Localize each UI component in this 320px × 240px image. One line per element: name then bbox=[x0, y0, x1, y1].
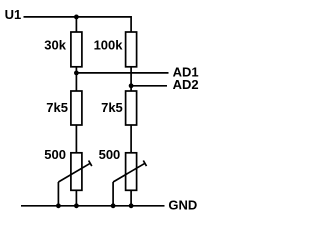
trimmer potentiometer 500 left wiper arrow bbox=[58, 161, 91, 183]
wire node AD2 to label bbox=[131, 85, 167, 87]
wire node AD1 to label bbox=[76, 72, 168, 74]
wire U1 top rail bbox=[24, 17, 132, 32]
junction node AD1 bbox=[74, 71, 79, 76]
junction right wiper / GND bbox=[111, 203, 116, 208]
wire 30k bottom to 7k5 top (node AD1) bbox=[75, 67, 77, 91]
resistor 100k bbox=[126, 32, 137, 67]
junction trimmer left / GND bbox=[74, 203, 79, 208]
junction top rail / 30k bbox=[74, 15, 79, 20]
svg-text:7k5: 7k5 bbox=[101, 100, 123, 115]
wire GND bottom rail bbox=[21, 205, 165, 207]
resistor 7k5 left bbox=[71, 91, 82, 125]
svg-text:500: 500 bbox=[44, 147, 66, 162]
svg-text:AD2: AD2 bbox=[173, 77, 199, 92]
wire 100k bottom to 7k5 top (node AD2) bbox=[130, 67, 132, 91]
junction node AD2 bbox=[129, 83, 134, 88]
svg-text:100k: 100k bbox=[94, 37, 124, 52]
junction trimmer right / GND bbox=[129, 203, 134, 208]
wire 7k5 right bottom to trimmer top bbox=[130, 125, 132, 153]
svg-text:U1: U1 bbox=[5, 7, 22, 22]
wire 7k5 left bottom to trimmer top bbox=[75, 125, 77, 153]
trimmer potentiometer 500 right body bbox=[126, 153, 137, 191]
svg-text:500: 500 bbox=[99, 147, 121, 162]
trimmer potentiometer 500 right wiper arrow bbox=[113, 161, 146, 183]
svg-text:30k: 30k bbox=[44, 37, 66, 52]
resistor 30k bbox=[71, 32, 82, 67]
trimmer potentiometer 500 left body bbox=[71, 153, 82, 191]
svg-text:7k5: 7k5 bbox=[46, 100, 68, 115]
wire trimmer left bottom to GND rail bbox=[75, 190, 77, 206]
wire left wiper to GND rail bbox=[57, 182, 59, 206]
wire trimmer right bottom to GND rail bbox=[130, 190, 132, 206]
wire U1 to 30k top bbox=[75, 17, 77, 32]
wire right wiper to GND rail bbox=[112, 182, 114, 206]
junction left wiper / GND bbox=[56, 203, 61, 208]
resistor 7k5 right bbox=[126, 91, 137, 125]
svg-text:GND: GND bbox=[168, 197, 197, 212]
